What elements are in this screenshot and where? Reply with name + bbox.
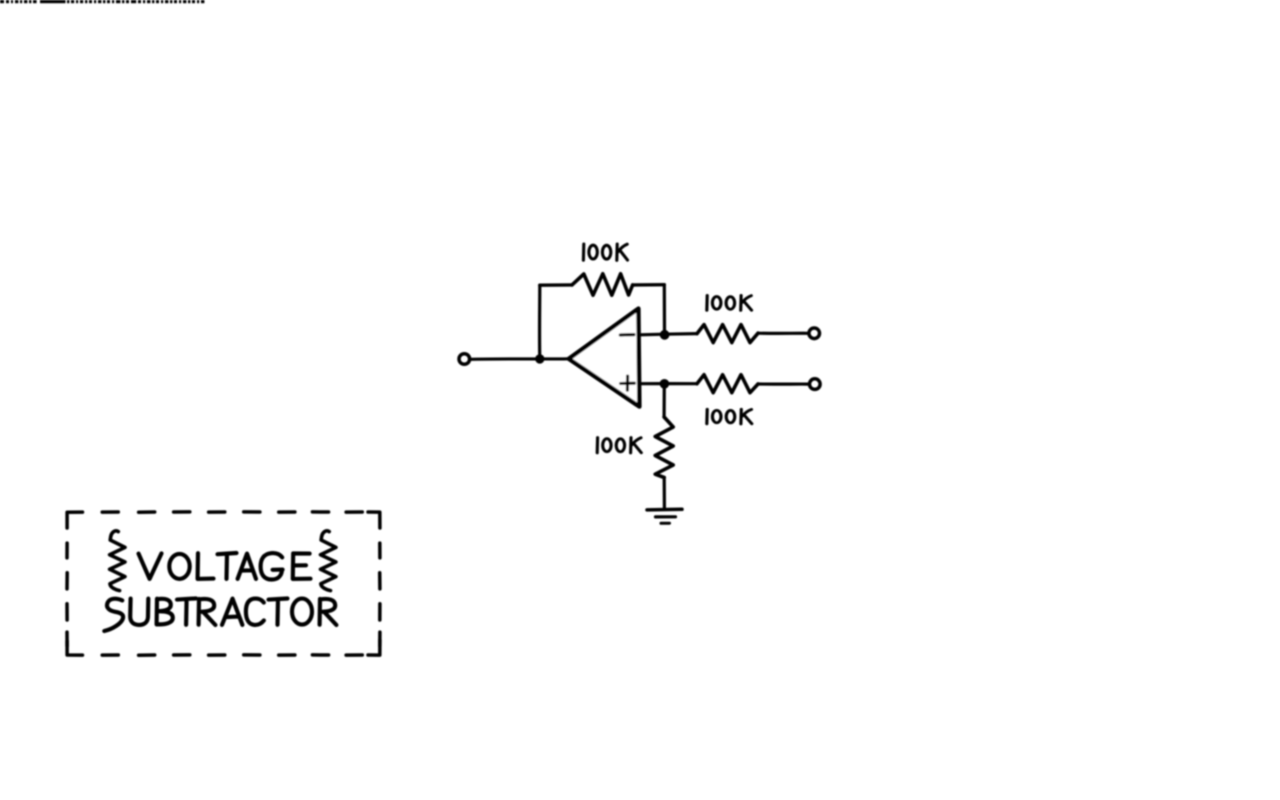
word VOLTAGE bbox=[139, 553, 311, 580]
resistor R4 100K vertical zigzag bbox=[655, 417, 673, 478]
dashed box top edge bbox=[102, 510, 362, 514]
input terminal V1 (top right) bbox=[809, 328, 820, 339]
letter L bbox=[198, 553, 214, 579]
resistor R1 100K feedback zigzag bbox=[572, 274, 633, 295]
box corner top-right bbox=[368, 512, 380, 528]
wire: output terminal to op-amp apex bbox=[471, 357, 569, 361]
letter G bbox=[261, 553, 283, 579]
node: inverting input junction bbox=[660, 330, 670, 340]
value label R1 100K bbox=[583, 244, 627, 260]
resistor R3 100K zigzag (bottom right) bbox=[697, 375, 758, 393]
value label R3 100K bbox=[707, 409, 752, 424]
wire: R3 left lead bbox=[664, 382, 697, 385]
decorative squiggle right bbox=[321, 531, 336, 591]
value label R2 100K bbox=[707, 295, 752, 310]
letter A bbox=[222, 599, 242, 625]
letter R bbox=[320, 599, 337, 625]
letter A bbox=[238, 554, 256, 579]
word SUBTRACTOR bbox=[104, 598, 336, 631]
letter E bbox=[293, 554, 311, 579]
cropped caption strip at top edge bbox=[0, 0, 204, 3]
dashed box right edge bbox=[378, 543, 382, 646]
dashed box bottom edge bbox=[102, 653, 362, 657]
letter V bbox=[139, 553, 162, 579]
wire: R4 top lead (down from + node) bbox=[662, 384, 665, 417]
box corner top-left bbox=[67, 512, 82, 528]
letter U bbox=[130, 599, 148, 625]
letter S bbox=[104, 599, 123, 631]
wire: non-inverting input stub bbox=[641, 382, 665, 385]
wire: feedback right vertical bbox=[663, 285, 666, 334]
letter C bbox=[246, 599, 264, 625]
wire: feedback left vertical bbox=[538, 285, 541, 359]
ground bbox=[647, 508, 682, 512]
letter R bbox=[199, 599, 216, 625]
box corner bottom-left bbox=[67, 641, 82, 655]
decorative squiggle left bbox=[110, 531, 125, 591]
letter B bbox=[157, 599, 173, 625]
letter O bbox=[292, 599, 312, 625]
letter T bbox=[177, 598, 196, 624]
resistor R2 100K zigzag (top right) bbox=[697, 325, 758, 343]
wire: R4 bottom lead bbox=[663, 478, 666, 509]
box corner bottom-right bbox=[368, 640, 380, 655]
wire: R2 right lead bbox=[758, 332, 807, 335]
value label R4 100K bbox=[597, 438, 641, 453]
node: non-inverting input junction bbox=[660, 379, 670, 389]
dashed box left edge bbox=[65, 543, 69, 646]
wire: R3 right lead bbox=[758, 382, 808, 385]
plus sign (non-inverting input) bbox=[621, 376, 635, 390]
op-amp U1 triangle bbox=[569, 309, 640, 407]
input terminal V2 (bottom right) bbox=[810, 379, 821, 390]
letter T bbox=[269, 599, 288, 625]
output terminal (left) bbox=[459, 354, 470, 365]
wire: feedback top-left horizontal bbox=[540, 283, 572, 287]
wire: inverting input stub bbox=[640, 333, 664, 337]
minus sign (inverting input) bbox=[620, 333, 634, 337]
letter T bbox=[218, 553, 237, 579]
letter O bbox=[169, 554, 189, 579]
wire: R2 left lead bbox=[665, 332, 698, 336]
wire: feedback top-right horizontal bbox=[633, 283, 665, 287]
junction dots bbox=[535, 330, 669, 389]
node: output junction bbox=[535, 354, 544, 363]
